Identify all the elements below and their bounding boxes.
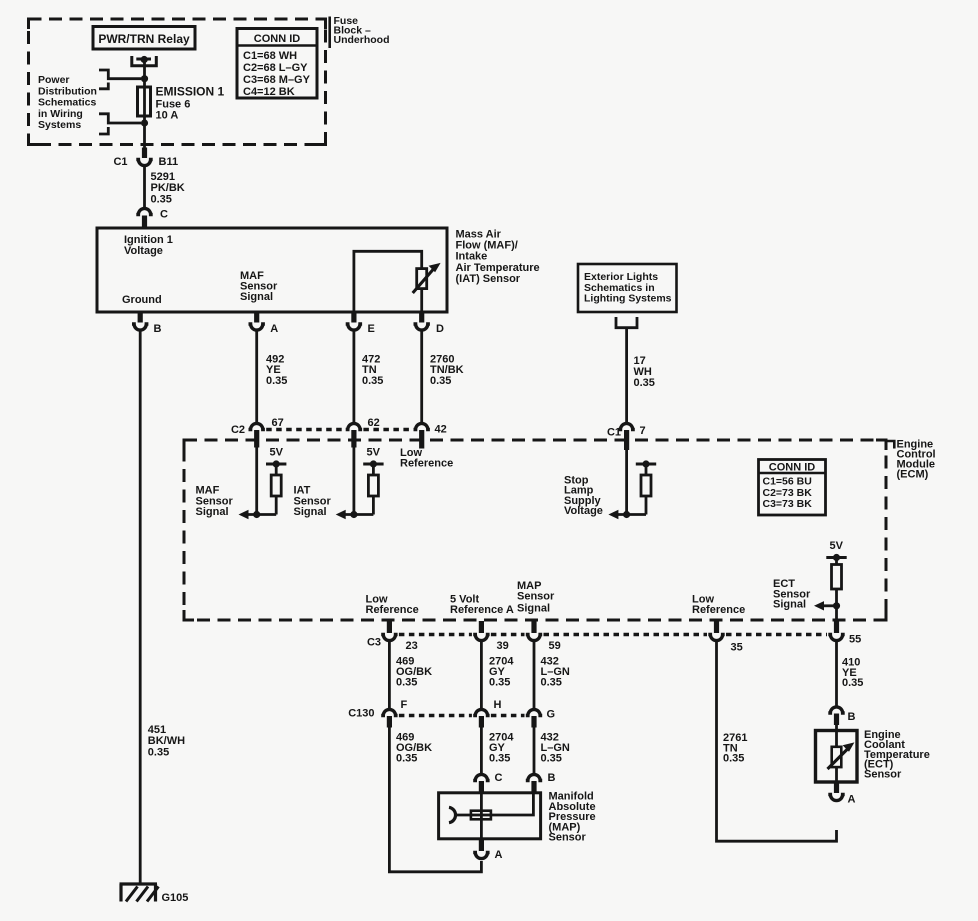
label Engine Coolant Temperature (ECT) Sensor <box>864 729 930 781</box>
svg-text:Flow (MAF)/: Flow (MAF)/ <box>456 240 518 252</box>
connector C3 pin 23 stub <box>387 621 392 633</box>
label Stop Lamp Supply Voltage <box>564 475 603 518</box>
connector C1 pin 7 stub <box>624 430 629 450</box>
off-page bracket under exterior lights box <box>616 317 637 328</box>
pin E stub <box>351 312 356 323</box>
svg-text:EMISSION 1: EMISSION 1 <box>156 85 225 99</box>
svg-text:PWR/TRN Relay: PWR/TRN Relay <box>98 32 190 46</box>
svg-text:Reference: Reference <box>692 604 745 616</box>
connector C2 pin 42 dome <box>414 423 430 429</box>
MAP sensing element <box>471 811 491 820</box>
svg-text:B11: B11 <box>159 156 179 168</box>
ECT thermistor arrowhead <box>843 742 855 751</box>
wire 472 TN 0.35 <box>352 331 355 424</box>
svg-text:5V: 5V <box>830 540 844 552</box>
connector C1 pin B11 stub <box>142 148 147 159</box>
connector C2 pin 62 dome <box>346 423 362 429</box>
svg-text:CONN ID: CONN ID <box>254 33 301 45</box>
svg-text:PK/BK: PK/BK <box>151 182 185 194</box>
junction dot stop lamp <box>623 511 630 518</box>
svg-text:0.35: 0.35 <box>396 677 417 689</box>
svg-text:Signal: Signal <box>517 603 550 615</box>
connector C2 pin 62 stub <box>351 430 356 448</box>
svg-text:Ground: Ground <box>122 294 162 306</box>
relay output terminal symbol <box>132 56 157 66</box>
wire 2704 GY upper <box>480 641 483 710</box>
svg-text:Reference A: Reference A <box>450 604 514 616</box>
svg-text:C130: C130 <box>348 708 374 720</box>
label Power Distribution Schematics in Wiring Systems <box>38 74 97 131</box>
svg-text:451: 451 <box>148 724 166 736</box>
label ECT Sensor Signal <box>773 578 811 611</box>
label bracket Fuse Block Underhood <box>328 17 331 49</box>
svg-text:B: B <box>154 323 162 335</box>
label Engine Control Module (ECM) <box>897 439 936 481</box>
arrow stop lamp supply voltage <box>608 510 618 519</box>
svg-text:Signal: Signal <box>240 291 273 303</box>
svg-text:0.35: 0.35 <box>489 677 510 689</box>
connector C2 pin 55 cup <box>828 635 844 641</box>
ground G105 <box>120 884 159 902</box>
svg-text:(IAT) Sensor: (IAT) Sensor <box>456 273 521 285</box>
connector table CONN ID fuse block <box>237 29 317 99</box>
label Fuse Block - Underhood <box>334 15 390 46</box>
wire ECT signal arrow line <box>822 604 837 607</box>
svg-text:7: 7 <box>640 425 646 437</box>
MAP sensor box <box>439 793 541 839</box>
svg-text:D: D <box>436 323 444 335</box>
wire 5291 PK/BK 0.35 <box>143 166 146 207</box>
label bracket ECM <box>886 441 894 449</box>
fuse block underhood dashed box corners <box>29 19 326 145</box>
ECM dashed box <box>184 440 886 620</box>
svg-text:(ECM): (ECM) <box>897 469 929 481</box>
svg-text:C3: C3 <box>367 637 381 649</box>
pin E cup <box>346 324 362 330</box>
svg-text:A: A <box>270 323 278 335</box>
junction dot IAT signal <box>350 511 357 518</box>
MAP internal wires <box>457 794 534 840</box>
svg-text:C1: C1 <box>113 156 127 168</box>
svg-text:23: 23 <box>406 640 418 652</box>
svg-text:Signal: Signal <box>196 506 229 518</box>
wire 410 YE 0.35 <box>835 641 838 707</box>
svg-text:C1=56 BU: C1=56 BU <box>763 476 812 488</box>
node 5V IAT pull-up <box>363 464 383 475</box>
connector C2 pin 55 stub <box>834 621 839 633</box>
svg-text:C2=68 L–GY: C2=68 L–GY <box>243 62 308 74</box>
connector C3 pin 59 stub <box>531 621 536 633</box>
resistor IAT pull-up <box>368 475 378 515</box>
relay K PWR/TRN Relay box <box>93 27 195 50</box>
label Low Reference pin 42 <box>400 447 453 470</box>
ECM dashed box corners <box>184 440 886 620</box>
connector table CONN ID ECM <box>759 460 826 516</box>
svg-text:B: B <box>848 711 856 723</box>
pin D stub <box>419 312 424 323</box>
svg-text:0.35: 0.35 <box>151 193 172 205</box>
IAT thermistor R (variable resistor) <box>413 269 434 293</box>
off-page reference bracket 1 (power distribution) <box>99 70 141 89</box>
svg-text:42: 42 <box>435 424 447 436</box>
wire 2761 TN 0.35 <box>717 641 837 841</box>
svg-text:C2=73 BK: C2=73 BK <box>763 487 813 499</box>
svg-text:55: 55 <box>849 634 861 646</box>
svg-text:C: C <box>160 209 168 221</box>
MAF/IAT sensor box <box>97 228 447 312</box>
svg-text:Sensor: Sensor <box>549 832 587 844</box>
resistor MAF pull-up <box>271 475 281 515</box>
svg-text:H: H <box>494 699 502 711</box>
svg-text:5V: 5V <box>270 447 284 459</box>
ECT pin A stub <box>834 782 839 793</box>
svg-text:Signal: Signal <box>773 599 806 611</box>
wire pin 67 to MAF signal node <box>246 446 276 515</box>
svg-text:0.35: 0.35 <box>723 753 744 765</box>
svg-text:Reference: Reference <box>400 458 453 470</box>
wire relay to fuse <box>143 60 146 149</box>
arrow ECT sensor signal <box>814 601 824 610</box>
resistor stop lamp pull-up <box>641 475 651 515</box>
label MAF Sensor Signal <box>196 485 234 519</box>
svg-text:Reference: Reference <box>366 604 419 616</box>
svg-text:10 A: 10 A <box>156 110 179 122</box>
label Mass Air Flow (MAF)/Intake Air Temperature (IAT) Sensor <box>456 228 540 285</box>
connector C2 pin 35 stub <box>714 621 719 633</box>
svg-text:A: A <box>848 794 856 806</box>
wire pin 62 to IAT signal node <box>343 446 373 515</box>
inline connector C130 row dashed <box>399 714 525 717</box>
svg-text:0.35: 0.35 <box>148 746 169 758</box>
connector C stub <box>142 216 147 227</box>
fuse EMISSION 1 Fuse 6 10A <box>138 87 151 116</box>
wire 469 OG/BK lower <box>389 726 481 872</box>
svg-text:Voltage: Voltage <box>564 505 603 517</box>
connector C3 pin 59 cup <box>526 635 542 641</box>
wire 432 L-GN lower <box>533 726 536 774</box>
label Low Reference pin 23 <box>366 594 419 617</box>
pin B stub <box>138 312 143 323</box>
connector C3 pin 23 cup <box>381 635 397 641</box>
svg-text:0.35: 0.35 <box>541 753 562 765</box>
wire 432 L-GN upper <box>533 641 536 710</box>
connector C1 pin B11 cup <box>136 160 152 166</box>
svg-text:Signal: Signal <box>294 506 327 518</box>
svg-text:5V: 5V <box>367 447 381 459</box>
pin A stub <box>254 312 259 323</box>
svg-text:C2: C2 <box>231 424 245 436</box>
svg-text:Sensor: Sensor <box>864 769 902 781</box>
ECM connector C3 row dashed <box>399 633 827 636</box>
node 5V ECT pull-up <box>826 558 846 565</box>
connector C3 pin 39 cup <box>473 635 489 641</box>
svg-text:F: F <box>401 699 408 711</box>
svg-text:Sensor: Sensor <box>517 591 555 603</box>
wire 17 WH 0.35 <box>625 328 628 423</box>
wire 451 BK/WH ground run <box>139 331 142 885</box>
connector C dome <box>136 208 152 214</box>
MAP pin C stub <box>479 781 484 792</box>
ECT pin B dome <box>828 707 844 713</box>
fuse block underhood dashed box <box>29 19 326 145</box>
connector C130 pin G stub <box>531 716 536 728</box>
svg-text:Intake: Intake <box>456 251 488 263</box>
svg-text:G: G <box>547 709 556 721</box>
wire 2760 TN/BK 0.35 <box>420 331 423 424</box>
label IAT Sensor Signal <box>294 485 332 519</box>
arrow MAF sensor signal <box>239 510 249 519</box>
svg-text:Voltage: Voltage <box>124 245 163 257</box>
ECT thermistor R <box>828 747 848 769</box>
MAP pin B stub <box>531 781 536 792</box>
svg-text:0.35: 0.35 <box>489 753 510 765</box>
svg-text:B: B <box>548 772 556 784</box>
svg-text:62: 62 <box>368 417 380 429</box>
wire 469 OG/BK upper <box>388 641 391 710</box>
svg-text:C1=68 WH: C1=68 WH <box>243 50 297 62</box>
svg-text:Distribution: Distribution <box>38 85 97 97</box>
connector C130 pin F dome <box>381 709 397 715</box>
ECM connector C2 row dashed <box>266 428 412 431</box>
svg-text:C1: C1 <box>607 427 621 439</box>
label MAP Sensor Signal <box>517 580 555 615</box>
off-page reference bracket 2 (power distribution) <box>99 114 141 134</box>
exterior lights reference box <box>578 264 677 312</box>
label Manifold Absolute Pressure (MAP) Sensor <box>549 791 596 844</box>
ECT pin A cup <box>828 795 844 801</box>
svg-text:0.35: 0.35 <box>362 375 383 387</box>
svg-text:C4=12 BK: C4=12 BK <box>243 86 295 98</box>
pin B cup <box>132 324 148 330</box>
pin A cup <box>249 324 265 330</box>
svg-text:Mass Air: Mass Air <box>456 228 502 240</box>
svg-text:Lighting Systems: Lighting Systems <box>584 293 672 305</box>
node 5V MAF pull-up <box>266 464 286 475</box>
MAP pin A stub <box>479 840 484 852</box>
connector C130 pin G dome <box>526 709 542 715</box>
svg-text:59: 59 <box>549 640 561 652</box>
connector C2 pin 42 stub <box>419 430 424 449</box>
svg-text:0.35: 0.35 <box>634 377 655 389</box>
svg-text:Underhood: Underhood <box>334 34 390 46</box>
internal wire IAT element <box>354 251 422 312</box>
wire 492 YE 0.35 <box>255 331 258 424</box>
svg-text:Air Temperature: Air Temperature <box>456 262 540 274</box>
svg-text:in Wiring: in Wiring <box>38 108 83 120</box>
svg-text:67: 67 <box>272 417 284 429</box>
svg-text:Power: Power <box>38 74 70 86</box>
connector C3 pin 39 stub <box>479 621 484 633</box>
svg-text:E: E <box>368 323 375 335</box>
label 5 Volt Reference A <box>450 594 514 617</box>
IAT thermistor arrowhead <box>429 263 441 272</box>
connector C130 pin H dome <box>473 709 489 715</box>
svg-text:Systems: Systems <box>38 119 81 131</box>
resistor ECT pull-up <box>832 565 842 623</box>
junction dot relay terminal <box>141 56 148 63</box>
svg-text:Schematics: Schematics <box>38 97 97 109</box>
svg-text:35: 35 <box>731 642 743 654</box>
svg-text:0.35: 0.35 <box>430 375 451 387</box>
ECT sensor box <box>816 731 858 783</box>
svg-text:0.35: 0.35 <box>541 677 562 689</box>
MAP pin B dome <box>526 774 542 780</box>
connector C1 pin 7 dome <box>618 423 634 429</box>
svg-text:0.35: 0.35 <box>842 677 863 689</box>
junction dot ECT signal <box>833 602 840 609</box>
node B+ stop lamp pull-up <box>636 464 656 475</box>
wire pin 7 to stop lamp node <box>616 448 646 515</box>
pin D cup <box>414 324 430 330</box>
wire 2704 GY lower <box>480 726 483 774</box>
MAP pin C dome <box>473 774 489 780</box>
svg-text:C: C <box>495 772 503 784</box>
label Low Reference pin 35 <box>692 594 745 617</box>
connector C2 pin 67 dome <box>249 423 265 429</box>
ECT internal wires <box>835 723 838 782</box>
connector C130 pin H stub <box>479 716 484 728</box>
arrow IAT sensor signal <box>336 510 346 519</box>
connector C2 pin 35 cup <box>708 635 724 641</box>
junction dot MAF signal <box>253 511 260 518</box>
svg-text:C3=73 BK: C3=73 BK <box>763 498 813 510</box>
svg-text:G105: G105 <box>162 892 189 904</box>
MAP pressure port arc <box>449 807 456 822</box>
ECT pin B stub <box>834 714 839 726</box>
svg-text:5291: 5291 <box>151 171 175 183</box>
svg-text:BK/WH: BK/WH <box>148 735 185 747</box>
connector C2 pin 67 stub <box>254 430 259 448</box>
svg-text:0.35: 0.35 <box>266 375 287 387</box>
junction dot A1 <box>141 75 148 82</box>
junction dot A2 <box>141 119 148 126</box>
svg-text:CONN ID: CONN ID <box>769 461 816 473</box>
svg-text:A: A <box>495 849 503 861</box>
MAP pin A cup <box>473 853 489 859</box>
svg-text:C3=68 M–GY: C3=68 M–GY <box>243 74 311 86</box>
svg-text:0.35: 0.35 <box>396 753 417 765</box>
svg-text:39: 39 <box>497 640 509 652</box>
connector C130 pin F stub <box>387 716 392 728</box>
